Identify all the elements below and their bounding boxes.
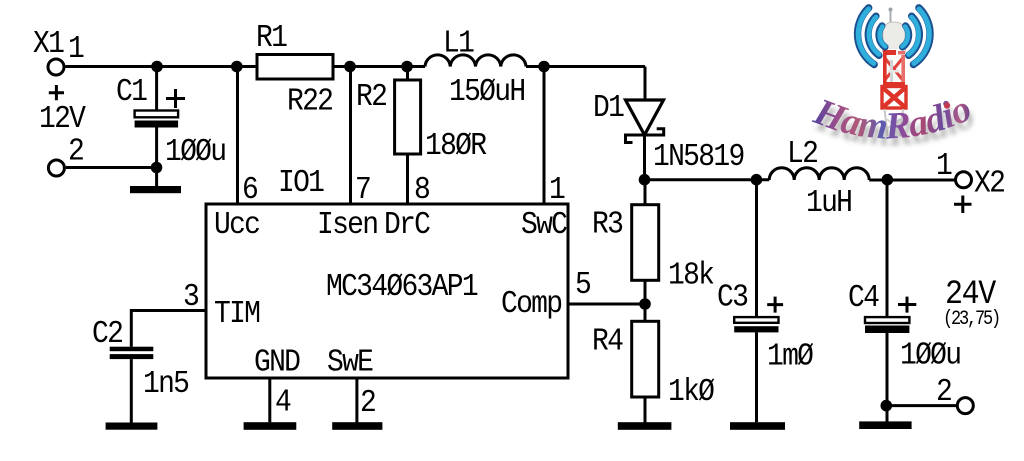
svg-text:Ucc: Ucc <box>214 207 259 243</box>
wire pin 1 stub <box>543 67 546 205</box>
node junction L2 left <box>751 174 763 186</box>
plus sign at C4 <box>898 297 916 313</box>
node junction L2 right / C4 top <box>882 174 894 186</box>
wire D1 cathode to node <box>643 135 646 180</box>
svg-text:18ØR: 18ØR <box>425 128 487 164</box>
svg-text:2: 2 <box>936 374 951 410</box>
svg-text:2: 2 <box>360 385 375 421</box>
resistor R1 <box>257 55 333 80</box>
svg-text:2: 2 <box>68 133 83 169</box>
svg-text:1n5: 1n5 <box>143 366 189 402</box>
capacitor C2 <box>110 347 154 359</box>
wire SwE pin 2 stub <box>355 378 358 423</box>
svg-text:MC34Ø63AP1: MC34Ø63AP1 <box>326 269 478 305</box>
node junction R2 top / L1 left <box>401 61 413 73</box>
resistor R4 <box>632 304 659 423</box>
capacitor C3 <box>734 180 778 422</box>
svg-text:R2: R2 <box>356 79 386 115</box>
ground under pin 4 <box>244 422 297 430</box>
wire D1 anode drop <box>644 67 647 101</box>
svg-text:15ØuH: 15ØuH <box>449 74 524 110</box>
svg-text:6: 6 <box>242 172 257 208</box>
svg-text:1ØØu: 1ØØu <box>900 337 960 373</box>
wire L2 right to X2-1 <box>869 179 954 182</box>
ground under C3 <box>730 422 785 430</box>
node junction R1 right / pin7 tap <box>344 61 356 73</box>
node junction D1 bottom <box>639 174 651 186</box>
node junction R3/R4/Comp <box>639 298 651 310</box>
svg-text:R22: R22 <box>287 83 332 119</box>
wire C1 bottom stub <box>155 128 158 187</box>
svg-text:X1: X1 <box>33 26 64 62</box>
svg-text:C2: C2 <box>92 316 122 352</box>
node junction L1 right / pin1 tap <box>538 61 550 73</box>
svg-text:TIM: TIM <box>214 296 260 332</box>
radio waves left <box>858 8 886 65</box>
svg-text:1: 1 <box>936 148 952 184</box>
svg-text:SwE: SwE <box>327 344 373 380</box>
svg-text:C1: C1 <box>116 74 147 110</box>
svg-text:1ØØu: 1ØØu <box>165 134 225 170</box>
ground under pin 2 <box>332 422 382 430</box>
terminal X2 pin 1 <box>956 172 972 188</box>
svg-text:IO1: IO1 <box>278 165 324 201</box>
svg-text:1kØ: 1kØ <box>668 374 715 410</box>
red dot of letter i <box>944 102 950 108</box>
svg-text:1N5819: 1N5819 <box>653 139 744 175</box>
inductor L2 <box>769 168 869 180</box>
node junction top of C1 <box>151 61 163 73</box>
svg-text:8: 8 <box>414 172 429 208</box>
wire TIM pin 3 <box>131 311 206 347</box>
inductor L1 <box>425 55 526 67</box>
svg-text:(23,75): (23,75) <box>943 307 999 331</box>
svg-text:R1: R1 <box>256 20 287 56</box>
plus sign at X2 <box>954 196 972 214</box>
capacitor C4 <box>865 180 909 422</box>
plus sign at C1 <box>166 89 185 108</box>
plus sign at C3 <box>767 297 783 313</box>
wire C1 top stub <box>155 67 158 111</box>
node junction C1 bottom <box>151 162 163 174</box>
wire top rail from X1-1 to D1 corner <box>66 65 646 68</box>
svg-text:18k: 18k <box>668 257 714 293</box>
svg-text:DrC: DrC <box>384 207 430 243</box>
ground under C2 <box>106 423 158 430</box>
wire pin 7 stub <box>349 67 352 205</box>
radio waves right <box>902 8 930 65</box>
diode D1 1N5819 <box>626 100 664 143</box>
svg-text:R3: R3 <box>592 206 623 242</box>
plus sign at X1 <box>49 85 64 100</box>
antenna tower mast <box>882 8 906 137</box>
svg-text:GND: GND <box>254 344 300 380</box>
svg-text:1: 1 <box>68 31 84 67</box>
svg-text:Isen: Isen <box>317 207 377 243</box>
svg-text:L1: L1 <box>443 25 474 61</box>
svg-text:D1: D1 <box>593 90 624 126</box>
svg-text:L2: L2 <box>787 136 817 172</box>
svg-text:12V: 12V <box>39 101 86 137</box>
svg-text:5: 5 <box>575 267 591 303</box>
wire C2 bottom <box>130 359 133 422</box>
wire pin 6 stub <box>236 67 239 205</box>
wire GND pin 4 stub <box>268 378 271 422</box>
svg-text:1uH: 1uH <box>806 185 851 221</box>
node junction C4 bottom <box>881 400 893 412</box>
terminal X1 pin 2 <box>48 160 64 176</box>
terminal X1 pin 1 <box>48 59 64 75</box>
svg-text:C3: C3 <box>717 279 748 315</box>
svg-text:1: 1 <box>549 172 565 208</box>
wire Comp pin 5 <box>568 303 645 306</box>
wire X1-2 to C1 bottom node <box>66 166 157 169</box>
svg-text:Comp: Comp <box>501 286 561 322</box>
wire C4 node to X2-2 <box>886 404 956 407</box>
svg-text:X2: X2 <box>974 165 1004 201</box>
op-amp/IC IO1 MC34063AP1 box <box>206 204 568 378</box>
svg-text:SwC: SwC <box>521 207 567 243</box>
svg-text:4: 4 <box>275 384 291 420</box>
svg-text:1mØ: 1mØ <box>767 338 814 374</box>
wire output rail D1 to L2 <box>645 178 770 181</box>
ground under C4 <box>859 421 911 429</box>
ground under R4 <box>618 422 672 430</box>
svg-text:7: 7 <box>355 172 370 208</box>
resistor R3 <box>632 180 659 304</box>
terminal X2 pin 2 <box>957 398 973 414</box>
resistor R2 <box>395 67 421 205</box>
node junction R1 left / pin6 tap <box>231 61 243 73</box>
svg-text:R4: R4 <box>592 323 623 359</box>
HamRadio logo <box>808 8 980 155</box>
ground under C1 <box>130 186 181 193</box>
svg-text:C4: C4 <box>848 280 879 316</box>
capacitor C1 <box>135 111 179 128</box>
